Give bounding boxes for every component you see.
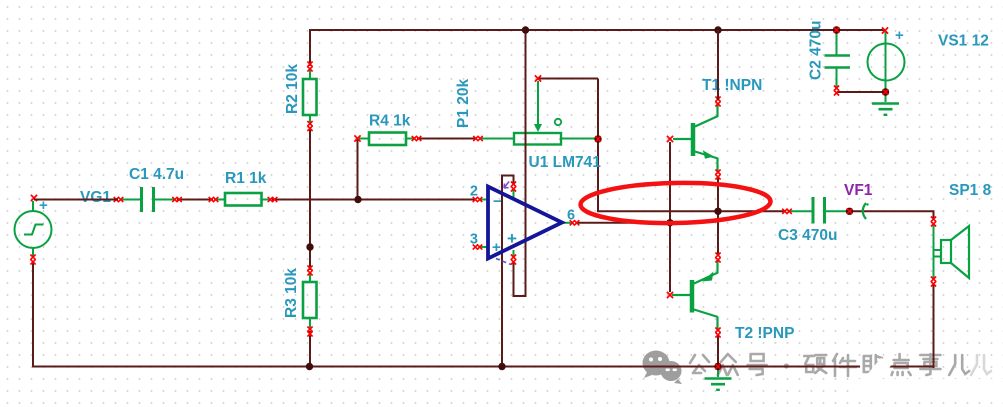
svg-text:R4 1k: R4 1k <box>369 113 411 130</box>
svg-text:SP1 8: SP1 8 <box>949 182 992 199</box>
svg-text:VS1 12: VS1 12 <box>938 33 989 50</box>
svg-text:+: + <box>895 27 904 44</box>
svg-text:T1 !NPN: T1 !NPN <box>702 77 762 94</box>
svg-text:C3 470u: C3 470u <box>778 227 837 244</box>
svg-text:U1 LM741: U1 LM741 <box>529 154 602 171</box>
svg-text:+: + <box>492 239 501 256</box>
svg-text:T2 !PNP: T2 !PNP <box>735 325 794 342</box>
svg-text:VF1: VF1 <box>844 182 873 199</box>
svg-text:R2 10k: R2 10k <box>284 64 301 114</box>
svg-text:+: + <box>507 229 517 248</box>
svg-text:R3 10k: R3 10k <box>283 268 300 318</box>
svg-text:P1 20k: P1 20k <box>455 78 472 128</box>
svg-text:VG1: VG1 <box>80 189 111 206</box>
svg-text:3: 3 <box>470 232 478 248</box>
svg-text:6: 6 <box>567 208 575 224</box>
svg-text:2: 2 <box>470 184 478 200</box>
svg-text:C2 470u: C2 470u <box>808 21 825 80</box>
svg-text:R1 1k: R1 1k <box>225 170 267 187</box>
svg-text:−: − <box>493 193 502 210</box>
svg-text:C1 4.7u: C1 4.7u <box>129 166 184 183</box>
